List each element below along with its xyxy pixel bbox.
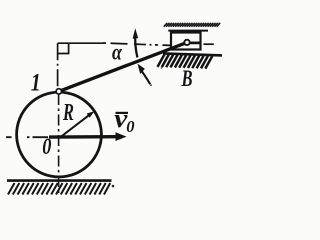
point 1 pivot (open joint) <box>56 89 61 94</box>
rotation arc upper arrow (shaft) <box>135 33 137 58</box>
radius arrow R shaft <box>60 115 90 138</box>
wheel vertical center line (dash-dot) <box>58 94 60 195</box>
vertical dash-dot line from corner down to point 1 <box>57 43 59 89</box>
ground hatching <box>8 183 110 195</box>
svg-text:0: 0 <box>42 133 52 160</box>
wheel (disk) rolling on ground <box>17 92 102 177</box>
rotation arc upper arrowhead <box>133 28 139 39</box>
wheel horizontal center line (dash-dot, left of O) <box>6 136 48 138</box>
ground line <box>7 179 112 182</box>
velocity vector v0 shaft <box>49 135 117 139</box>
radius arrow R head <box>87 111 95 117</box>
rotation arc lower arrowhead <box>138 64 145 74</box>
lower rail hatching <box>158 54 213 68</box>
svg-text:α: α <box>112 38 122 65</box>
rotation arc lower arrow (shaft) <box>141 70 151 85</box>
link bar from pin to right side of slider <box>189 42 201 45</box>
slider block B: thick top edge <box>168 30 208 32</box>
svg-text:0: 0 <box>126 117 134 136</box>
lower guide rail line at B <box>163 53 222 55</box>
dash of center line right of slider <box>203 43 213 45</box>
velocity vector v0 arrowhead <box>116 132 127 141</box>
horizontal reference line dash-dot continuation to slider <box>103 43 170 45</box>
svg-text:B: B <box>181 66 193 91</box>
speck right of ground <box>112 185 115 188</box>
slider block B body <box>171 33 201 50</box>
upper guide rail hatching (wall above slider) <box>164 23 220 27</box>
svg-text:R: R <box>62 100 74 126</box>
tiny speck below rotation arc <box>150 84 152 86</box>
label v0 overbar <box>116 112 129 114</box>
connecting rod from point 1 to slider pin B <box>59 42 187 91</box>
right-angle mark <box>58 43 69 53</box>
horizontal reference line from corner (solid part) <box>58 42 103 44</box>
svg-text:1: 1 <box>31 68 41 96</box>
tiny speck left of B label <box>161 67 163 69</box>
slider pin (joint at B) <box>184 40 189 45</box>
